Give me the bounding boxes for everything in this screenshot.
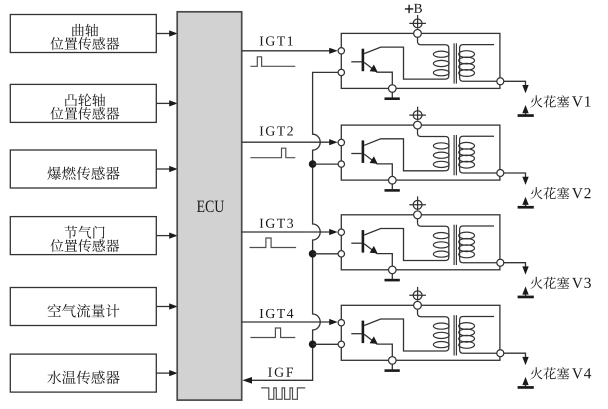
wire emitter Q1 to ground (364, 62, 392, 84)
label IGT3 (260, 219, 293, 228)
spark plug ground bar V4 (518, 385, 534, 389)
waveform IGT1 pulse (250, 57, 295, 67)
emitter arrow Q3 (370, 246, 378, 254)
spark plug ground bar V3 (518, 294, 534, 298)
ignition coil T4 primary winding (418, 309, 449, 351)
waveform IGT3 pulse (250, 238, 297, 248)
wire IGT3 signal from ECU to igniter 3 (242, 229, 338, 235)
sensor box 凸轮轴位置传感器 (10, 84, 156, 122)
ignition coil T4 secondary winding (460, 317, 497, 354)
ignition coil T4 core (454, 315, 456, 355)
terminal node emitter ground module 4 (389, 357, 397, 365)
ignition coil T1 secondary winding (460, 45, 497, 82)
emitter arrow Q2 (370, 156, 378, 164)
label 火花塞V3 (530, 277, 590, 289)
waveform IGT4 pulse (250, 328, 295, 338)
sensor box 爆燃传感器 (10, 150, 156, 188)
igniter module 4 box (341, 305, 500, 360)
wire collector Q2 to primary coil (364, 139, 444, 171)
sensor box 曲轴位置传感器 (10, 15, 156, 53)
terminal node high-voltage output module 1 (497, 78, 504, 85)
terminal node IGF output module 2 (338, 161, 344, 167)
waveform IGF pulses (261, 388, 305, 399)
terminal node IGF output module 1 (338, 69, 344, 75)
ignition coil T3 primary winding (418, 219, 449, 261)
ignition coil T2 primary winding (418, 129, 449, 171)
igniter module 1 box (341, 33, 500, 88)
emitter arrow Q4 (370, 336, 378, 344)
wire IGF tap to igniter 4 (313, 343, 339, 345)
terminal node high-voltage output module 2 (497, 170, 504, 177)
wire IGT1 signal from ECU to igniter 1 (242, 48, 338, 54)
junction dot IGF bus module 3 (309, 250, 317, 258)
wire 凸轮轴位置传感器 to ECU with arrow (156, 100, 177, 106)
transistor Q4 base lead (351, 333, 361, 335)
sensor box 空气流量计 (10, 288, 156, 326)
wire IGF feedback bus (vertical) with hops over IGT2-IGT4 (250, 72, 339, 380)
ground symbol module 1 (385, 92, 400, 100)
spark gap electrode arrow up V3 (522, 286, 528, 294)
wire high-voltage to spark plug V1 (504, 81, 526, 86)
terminal node +B module 4 (414, 301, 422, 309)
wire IGF tap to igniter 3 (313, 253, 339, 255)
wire IGT2 signal from ECU to igniter 2 (242, 139, 338, 145)
terminal node emitter ground module 2 (389, 176, 397, 184)
ignition coil T1 primary winding (418, 37, 449, 79)
label 火花塞V4 (530, 367, 591, 379)
terminal node IGT input module 4 (338, 320, 344, 326)
wire IGF tap to igniter 2 (313, 163, 339, 165)
wire emitter Q2 to ground (364, 154, 392, 176)
wire high-voltage to spark plug V3 (504, 263, 526, 268)
igniter module 3 box (341, 215, 500, 270)
wire IGT4 signal from ECU to igniter 4 (242, 319, 338, 325)
transistor Q4 base bar (362, 321, 365, 344)
ignition coil T3 core (454, 225, 456, 265)
wire 节气门位置传感器 to ECU with arrow (156, 233, 177, 239)
spark gap electrode arrow down V2 (522, 177, 528, 185)
label IGT1 (260, 36, 293, 45)
ignition coil T1 core (454, 43, 456, 83)
sensor box 水温传感器 (10, 354, 156, 392)
wire collector Q4 to primary coil (364, 319, 444, 351)
wire high-voltage to spark plug V2 (504, 173, 526, 178)
terminal node high-voltage output module 3 (497, 259, 504, 266)
spark gap electrode arrow down V3 (522, 266, 528, 274)
junction dot IGF bus module 4 (309, 341, 317, 349)
label IGT4 (260, 309, 294, 318)
transistor Q2 base bar (362, 140, 365, 163)
terminal node emitter ground module 3 (389, 266, 397, 274)
terminal node IGT input module 2 (338, 139, 344, 145)
wire 曲轴位置传感器 to ECU with arrow (156, 30, 177, 36)
ECU U1 (177, 12, 242, 400)
terminal node emitter ground module 1 (389, 85, 397, 93)
emitter arrow Q1 (370, 65, 378, 73)
spark gap electrode arrow down V4 (522, 357, 528, 365)
igniter module 2 box (341, 125, 500, 180)
spark plug ground bar V1 (518, 113, 534, 117)
terminal node high-voltage output module 4 (497, 350, 504, 357)
ignition coil T2 secondary winding (460, 136, 497, 173)
sensor box 节气门位置传感器 (10, 217, 156, 255)
ground symbol module 2 (385, 184, 400, 192)
+B supply connector module 3 (409, 196, 426, 210)
terminal node IGT input module 1 (338, 48, 344, 54)
ignition coil T3 secondary winding (460, 226, 497, 263)
transistor Q1 base bar (362, 49, 365, 71)
ignition coil T2 core (454, 135, 456, 175)
wire 爆燃传感器 to ECU with arrow (156, 166, 177, 172)
wire high-voltage to spark plug V4 (504, 353, 526, 358)
terminal node +B module 1 (414, 30, 422, 38)
spark gap electrode arrow up V4 (522, 377, 528, 385)
transistor Q3 base bar (362, 230, 365, 253)
wire emitter Q4 to ground (364, 334, 392, 356)
transistor Q1 base lead (351, 61, 361, 63)
spark gap electrode arrow up V1 (522, 105, 528, 113)
label 火花塞V1 (530, 95, 590, 107)
terminal node IGF output module 4 (338, 341, 344, 347)
wire emitter Q3 to ground (364, 244, 392, 266)
label 火花塞V2 (530, 187, 590, 199)
label IGF (268, 368, 293, 377)
terminal node IGF output module 3 (338, 251, 344, 257)
label IGT2 (260, 126, 293, 135)
junction dot IGF bus module 2 (309, 160, 317, 168)
label +B (405, 4, 422, 13)
+B supply connector module 2 (409, 107, 426, 121)
wire 水温传感器 to ECU with arrow (156, 370, 177, 376)
ground symbol module 3 (385, 274, 400, 282)
terminal node +B module 3 (414, 211, 422, 219)
terminal node +B module 2 (414, 121, 422, 129)
wire collector Q3 to primary coil (364, 229, 444, 261)
spark plug ground bar V2 (518, 205, 534, 209)
wire 空气流量计 to ECU with arrow (156, 303, 177, 309)
ground symbol module 4 (385, 364, 400, 372)
arrowhead IGF into ECU (242, 377, 252, 384)
transistor Q2 base lead (351, 153, 361, 155)
spark gap electrode arrow down V1 (522, 85, 528, 93)
+B supply connector module 1 (409, 15, 426, 29)
transistor Q3 base lead (351, 242, 361, 244)
wire collector Q1 to primary coil (364, 47, 444, 79)
waveform IGT2 pulse (250, 148, 295, 158)
spark gap electrode arrow up V2 (522, 197, 528, 205)
terminal node IGT input module 3 (338, 229, 344, 235)
+B supply connector module 4 (409, 287, 426, 301)
